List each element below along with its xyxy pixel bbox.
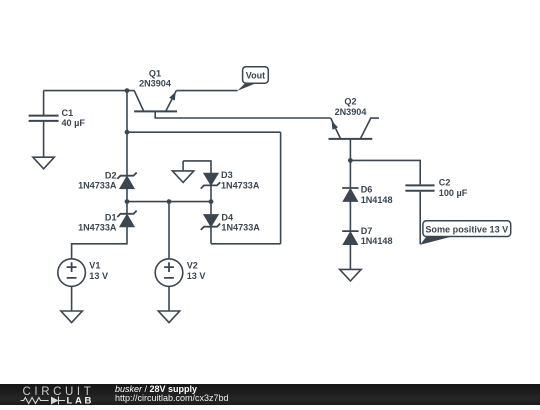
wire ground to D3 top — [183, 161, 211, 173]
wire vertical from node to loop junction — [126, 91, 128, 133]
junction node at (127,201.6) — [125, 199, 130, 204]
wire D3 to bus — [210, 185, 212, 201]
wire D2 bottom to bus — [126, 189, 128, 202]
svg-text:Q1: Q1 — [149, 69, 161, 79]
svg-text:40 µF: 40 µF — [62, 118, 86, 128]
wire loop bottom from D4 to riser — [211, 243, 281, 245]
wire V2 to ground — [168, 286, 170, 311]
wire V1 to ground — [71, 286, 73, 311]
ground under V2 — [158, 311, 179, 323]
svg-text:2N3904: 2N3904 — [335, 107, 368, 117]
wire bus to D1 — [126, 202, 128, 214]
svg-text:2N3904: 2N3904 — [139, 78, 172, 88]
svg-text:D4: D4 — [221, 213, 234, 223]
diode D6 1N4148 — [342, 188, 358, 201]
ground under D7 — [340, 269, 361, 281]
wire C2 bottom to flag — [419, 192, 421, 245]
svg-text:1N4733A: 1N4733A — [221, 223, 260, 233]
svg-text:D7: D7 — [361, 226, 373, 236]
wire loop right riser — [280, 132, 282, 244]
wire node to D6 — [349, 160, 351, 188]
svg-text:V2: V2 — [187, 261, 198, 271]
wire D4 bottom to loop bottom — [210, 227, 212, 244]
svg-text:Some positive 13 V: Some positive 13 V — [425, 224, 508, 234]
diode D2 zener 1N4733A — [117, 173, 136, 189]
svg-text:V1: V1 — [89, 261, 100, 271]
footer bar — [0, 384, 540, 405]
diode D1 zener 1N4733A — [117, 211, 136, 227]
wire D7 to ground — [349, 245, 351, 270]
CircuitLab logo — [0, 384, 110, 405]
wire node to C2 — [350, 160, 420, 184]
wire loop top from junction to right riser — [127, 131, 281, 133]
transistor Q2 2N3904 — [329, 118, 380, 139]
diode D7 1N4148 — [342, 231, 358, 244]
svg-text:D1: D1 — [105, 213, 117, 223]
svg-text:D3: D3 — [221, 170, 233, 180]
junction node at (211,201.6) — [209, 199, 214, 204]
capacitor C1 — [29, 91, 59, 157]
ground under C1 — [33, 157, 54, 169]
wire Q1 base to Q2 emitter — [155, 111, 331, 118]
junction node at (127,90.6) — [125, 88, 130, 93]
wire D1 bottom to V1 top (L-shape) — [72, 227, 127, 259]
wire D6 to D7 — [349, 201, 351, 231]
wire Q2 base lead down to node — [349, 139, 351, 161]
svg-text:1N4733A: 1N4733A — [78, 223, 117, 233]
diode D4 zener 1N4733A — [201, 215, 220, 230]
ground under V1 — [61, 311, 82, 323]
net flag Some positive 13 V — [420, 221, 511, 245]
ground above D3 — [172, 161, 193, 183]
net flag Vout — [238, 67, 269, 91]
wire V2 riser from bus — [168, 202, 170, 259]
wire bus from D1/D2 node to D3/D4 node — [127, 201, 211, 203]
wire Q1 emitter to Vout flag — [176, 90, 237, 92]
diode D3 zener 1N4733A — [201, 173, 220, 188]
junction node at (169,201.6) — [167, 199, 172, 204]
svg-text:Vout: Vout — [246, 70, 265, 80]
svg-text:100 µF: 100 µF — [439, 188, 468, 198]
svg-text:C2: C2 — [439, 177, 451, 187]
svg-text:13 V: 13 V — [187, 271, 206, 281]
junction node at (127,132.2) — [125, 130, 130, 135]
transistor Q1 2N3904 — [134, 91, 177, 112]
svg-text:1N4148: 1N4148 — [361, 195, 393, 205]
wire bus to D4 — [210, 202, 212, 215]
capacitor C2 — [405, 185, 434, 190]
voltage source V1 — [58, 259, 86, 287]
junction node at (350.4,160.4) — [348, 158, 353, 163]
svg-text:D6: D6 — [361, 185, 373, 195]
wire C1 top to node at Q1 collector — [44, 90, 135, 92]
svg-text:1N4148: 1N4148 — [361, 236, 393, 246]
svg-text:1N4733A: 1N4733A — [78, 181, 117, 191]
svg-text:Q2: Q2 — [344, 97, 356, 107]
svg-text:LAB: LAB — [67, 395, 95, 405]
svg-text:1N4733A: 1N4733A — [221, 180, 260, 190]
svg-text:13 V: 13 V — [89, 271, 108, 281]
svg-text:C1: C1 — [62, 108, 74, 118]
svg-text:D2: D2 — [105, 170, 117, 180]
voltage source V2 — [155, 259, 183, 287]
wire vertical junction to D2 — [126, 132, 128, 176]
